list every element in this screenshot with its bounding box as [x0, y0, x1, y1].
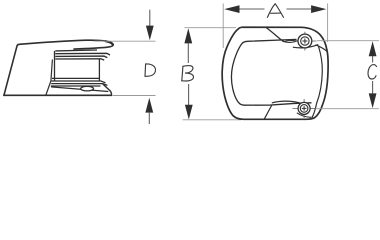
- dimension D: top extension line: [95, 40, 156, 42]
- left side view: lower flange stack: [52, 77, 100, 79]
- front view: inner face line: [231, 39, 311, 105]
- dimension B: lower tail: [188, 84, 190, 106]
- front view: diagonal parting line upper left: [266, 27, 284, 41]
- dimension D: top arrow tail: [149, 10, 151, 27]
- dimension A: right arrowhead (points right): [311, 5, 326, 13]
- dimension B: top arrowhead (points up): [184, 28, 192, 43]
- bottom screw: phillips cross: [302, 106, 307, 111]
- front view: outer outline: [222, 27, 328, 119]
- dimension B: bottom arrowhead (points down): [185, 105, 193, 120]
- dimension C: bottom arrowhead (points down): [369, 93, 377, 108]
- dimension D: bottom arrow tail: [148, 112, 150, 124]
- dimension A: label: [267, 4, 283, 18]
- bottom screw: outer circle: [298, 102, 310, 114]
- bottom screw: centerline horizontal: [293, 107, 316, 109]
- front view: lens detail left of top screw: [284, 40, 298, 42]
- top screw: centerline horizontal: [294, 40, 317, 42]
- front view: top screw boss arc: [293, 45, 318, 48]
- left side view: base top sloped surface line: [51, 87, 108, 92]
- dimension B: top extension line: [185, 27, 237, 29]
- front view: bottom-left diagonal line: [264, 105, 272, 119]
- left side view: button neck left vertical: [54, 51, 56, 81]
- dimension C: upper tail: [372, 56, 374, 63]
- dimension A: right extension line: [327, 4, 329, 43]
- bottom screw: inner circle: [300, 105, 308, 113]
- dimension B: bottom extension line: [183, 119, 242, 121]
- front view: shoulder curve from top screw boss to right edge: [316, 45, 327, 51]
- dimension A: left extension line: [222, 4, 224, 49]
- dimension A: left dim line: [240, 8, 265, 10]
- dimension B: label: [182, 66, 194, 81]
- dimension C: top arrowhead (points up): [369, 41, 377, 56]
- top screw: inner circle: [301, 37, 309, 45]
- dimension D: bottom arrowhead (points up): [145, 98, 153, 113]
- top screw: outer circle: [298, 34, 312, 48]
- left side view: oval bump on base: [81, 86, 94, 91]
- left side view: base right bevel: [103, 84, 112, 95]
- left side view: bottom edge of base plate: [4, 94, 112, 96]
- bottom screw: centerline vertical: [303, 99, 305, 118]
- top screw: phillips cross: [302, 39, 307, 44]
- front view: inner right side line: [312, 46, 322, 118]
- dimension D: label: [145, 64, 156, 76]
- dimension C: bottom extension line: [316, 108, 380, 110]
- dimension C: label: [368, 65, 377, 79]
- front view: bottom screw boss arc: [297, 113, 312, 118]
- left side view: cap outer profile (left edge, top edge, right lip): [4, 40, 113, 95]
- dimension A: right dim line: [287, 8, 312, 10]
- dimension D: top arrowhead (points down): [146, 26, 154, 41]
- left side view: button neck right vertical: [98, 59, 100, 81]
- dimension C: top extension line: [317, 40, 379, 42]
- dimension A: left arrowhead (points left): [224, 5, 239, 13]
- left side view: beak tip accent: [106, 41, 114, 45]
- left side view: base left bevel: [46, 60, 53, 96]
- front view: bottom lens detail left of bottom screw: [272, 101, 302, 103]
- top screw: centerline vertical: [304, 32, 306, 51]
- left side view: latch button upper flange stack: [55, 49, 97, 52]
- dimension B: upper tail: [187, 43, 189, 63]
- dimension C: lower tail: [372, 81, 374, 94]
- dimension D: bottom extension line: [113, 95, 156, 97]
